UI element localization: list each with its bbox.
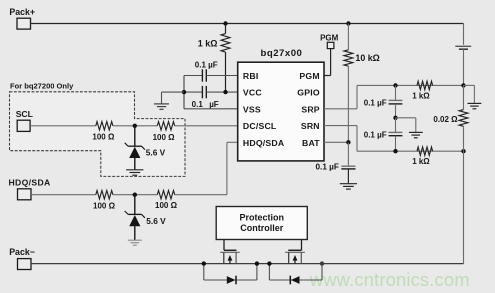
svg-text:Controller: Controller	[240, 223, 283, 233]
svg-text:1 kΩ: 1 kΩ	[412, 157, 430, 166]
svg-text:SCL: SCL	[16, 109, 33, 119]
svg-text:bq27x00: bq27x00	[260, 48, 302, 59]
svg-text:For bq27200 Only: For bq27200 Only	[10, 81, 74, 90]
svg-text:VSS: VSS	[243, 104, 261, 114]
svg-text:SRP: SRP	[301, 104, 319, 114]
svg-text:10 kΩ: 10 kΩ	[355, 53, 379, 63]
svg-text:GPIO: GPIO	[297, 88, 320, 98]
svg-text:5.6 V: 5.6 V	[146, 147, 166, 157]
svg-text:0.1: 0.1	[192, 100, 204, 109]
svg-text:HDQ/SDA: HDQ/SDA	[243, 138, 285, 148]
svg-text:0.02 Ω: 0.02 Ω	[433, 115, 458, 124]
svg-text:SRN: SRN	[301, 121, 320, 131]
svg-text:PGM: PGM	[299, 71, 319, 81]
svg-text:Pack−: Pack−	[9, 247, 35, 257]
svg-text:0.1 µF: 0.1 µF	[316, 162, 339, 171]
svg-text:PGM: PGM	[320, 34, 339, 43]
svg-text:5.6 V: 5.6 V	[146, 216, 166, 226]
svg-text:100 Ω: 100 Ω	[153, 133, 176, 142]
svg-text:DC/SCL: DC/SCL	[243, 121, 277, 131]
svg-text:Protection: Protection	[239, 213, 284, 223]
svg-text:www.cntronics.com: www.cntronics.com	[309, 269, 470, 290]
svg-text:BAT: BAT	[302, 138, 320, 148]
svg-text:0.1 µF: 0.1 µF	[195, 61, 218, 70]
svg-text:0.1 µF: 0.1 µF	[364, 98, 387, 107]
svg-text:µF: µF	[209, 100, 219, 109]
svg-text:0.1 µF: 0.1 µF	[364, 130, 387, 139]
svg-text:VCC: VCC	[243, 88, 262, 98]
svg-text:1 kΩ: 1 kΩ	[412, 92, 430, 101]
svg-text:100 Ω: 100 Ω	[155, 201, 178, 210]
svg-text:Pack+: Pack+	[9, 7, 35, 17]
svg-text:100 Ω: 100 Ω	[92, 132, 115, 141]
svg-text:100 Ω: 100 Ω	[93, 201, 116, 210]
svg-text:1 kΩ: 1 kΩ	[198, 39, 218, 49]
svg-text:RBI: RBI	[243, 71, 259, 81]
svg-text:HDQ/SDA: HDQ/SDA	[9, 178, 51, 188]
